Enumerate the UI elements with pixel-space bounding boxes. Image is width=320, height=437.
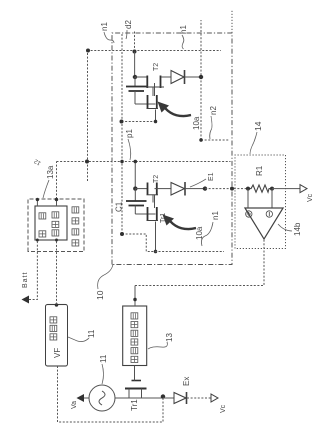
wire op-amp plus input lead: [247, 189, 249, 208]
node dot cell2 on d2 bus: [120, 120, 124, 124]
leader for d2: [126, 30, 127, 39]
transistor Tr4 bar 2: [156, 95, 158, 109]
svg-text:n1: n1: [211, 211, 220, 220]
capacitor C2 plate 2: [129, 90, 145, 92]
wire bus h vertical: [87, 50, 221, 52]
svg-text:11: 11: [99, 354, 108, 363]
source V1 wave symbol: [99, 391, 105, 405]
wire cell1 feed from p1: [134, 162, 136, 189]
node A2: [133, 186, 137, 190]
svg-text:13: 13: [165, 333, 174, 342]
node dot VF box right: [55, 303, 58, 306]
diode E1 triangle: [171, 183, 185, 196]
diode Ex cathode bar: [186, 392, 188, 404]
transistor Tr4 bar 1: [147, 95, 149, 109]
wire capacitor C1 far lead: [134, 206, 136, 215]
block voltage control unit (inner box): [35, 206, 67, 240]
block box 10 (dashed): [112, 33, 232, 265]
op-amp U1 triangle: [245, 208, 283, 239]
wire op-amp minus input lead: [271, 189, 273, 208]
wire source to Tr1: [115, 397, 163, 399]
transistor Tr1 channel bar: [125, 388, 147, 390]
diode E2 cathode bar: [184, 70, 186, 84]
wire 13a box to p1: [56, 162, 58, 200]
node dot n1 jog: [154, 250, 158, 254]
node dot crossing bus: [230, 187, 234, 191]
wire net h1 horizontal: [200, 20, 202, 140]
wire diode to Vc terminal: [187, 397, 211, 399]
leader for 13a: [43, 180, 49, 198]
leader for 13: [148, 342, 167, 349]
svg-text:C1: C1: [115, 201, 124, 212]
node junction d1/h: [86, 49, 90, 53]
terminal arrow Vc (left): [211, 394, 218, 402]
terminal arrow Batt: [22, 296, 30, 304]
wire Tr2 stub: [152, 195, 154, 203]
resistor R1 zigzag: [248, 185, 272, 192]
node dot inner box lower: [55, 239, 58, 242]
wire Tr5 to diode E2: [161, 76, 171, 78]
node n2 corner: [199, 138, 203, 142]
wire stub control box upper: [36, 199, 38, 206]
svg-text:VF: VF: [53, 348, 62, 358]
text row under control box: [72, 240, 79, 246]
wire capacitor C2 far lead: [134, 91, 136, 104]
node cell2 output on h1: [199, 75, 203, 79]
transistor Tr1 gate bar: [132, 380, 142, 382]
transistor Tr3 bar 1: [147, 207, 149, 221]
transistor Tr5 gate lead: [135, 76, 147, 78]
node dot box edge lower: [55, 198, 58, 201]
svg-text:Tr1: Tr1: [130, 399, 139, 411]
wire E2 to h1: [185, 76, 201, 78]
diode Ex triangle: [174, 393, 186, 404]
node A1: [133, 75, 137, 79]
svg-text:13a: 13a: [46, 165, 55, 179]
transistor Tr5 bar 2: [160, 76, 162, 89]
block box 14 (dotted): [235, 155, 286, 249]
pointer arrow 10a cell2: [165, 108, 191, 116]
wire bus extension: [231, 10, 233, 33]
terminal arrow Va: [77, 394, 85, 402]
leader for p1: [128, 139, 131, 160]
transistor Tr3 bar 2: [156, 207, 158, 221]
svg-text:Ex: Ex: [182, 377, 191, 386]
svg-text:d2: d2: [124, 20, 133, 29]
block threshold adjust unit 13: [123, 306, 147, 366]
svg-text:Va: Va: [71, 401, 78, 409]
svg-text:Vc: Vc: [307, 193, 314, 202]
leader for 14b: [278, 224, 292, 231]
wire Tr1 gate lead: [134, 366, 136, 381]
node R1 top: [246, 187, 250, 191]
wire net n1 jog: [122, 234, 224, 252]
wire Tr4 out lead: [155, 110, 157, 122]
transistor Tr2 gate lead: [135, 188, 147, 190]
wire junction to diode Ex: [163, 397, 174, 399]
transistor Tr2 bar 2: [156, 183, 158, 195]
wire net d2 horizontal bus: [121, 33, 123, 234]
text glyphs VF box: [50, 334, 57, 340]
wire Tr5 stub: [152, 87, 154, 96]
transistor Tr5 bar 1: [146, 76, 148, 89]
wire Tr3 out lead: [155, 222, 157, 252]
leader for n1: [201, 222, 213, 246]
svg-text:14b: 14b: [293, 222, 302, 236]
node dot cell2 corner: [154, 120, 158, 124]
text glyphs threshold box: [131, 356, 138, 362]
block box 13a (dashed): [28, 199, 84, 252]
svg-text:n1: n1: [100, 22, 109, 31]
svg-text:p1: p1: [125, 129, 134, 138]
wire R1 to Vc terminal: [272, 188, 300, 190]
diode E2 triangle: [171, 71, 184, 84]
wire op-amp output routing: [135, 239, 264, 286]
svg-text:h1: h1: [179, 25, 188, 34]
wire Batt input: [29, 240, 37, 300]
wire threshold box output: [134, 286, 136, 307]
wire bus right stub: [134, 30, 136, 52]
wire cell2 feed from bus: [134, 52, 136, 78]
svg-text:Vc: Vc: [220, 404, 227, 413]
source V1 (circle): [89, 385, 115, 411]
text row2 in control box: [52, 230, 59, 236]
capacitor C1 plate 1: [126, 200, 147, 202]
wire capacitor C2 lead: [134, 77, 136, 87]
wire C1 lead down: [135, 213, 155, 215]
svg-text:T2: T2: [153, 63, 160, 71]
op-amp plus input circle: [246, 211, 252, 217]
wire VF box to 13a box: [56, 240, 58, 305]
wire E1 to output node: [185, 188, 205, 190]
leader for n1 top: [104, 32, 114, 43]
svg-text:E1: E1: [208, 172, 215, 181]
block VF detection unit 11: [46, 305, 68, 367]
transistor Tr4 connector: [147, 108, 159, 110]
diode E1 cathode bar: [184, 182, 186, 196]
op-amp minus input circle: [266, 211, 272, 217]
pointer arrow 10a cell1: [170, 221, 196, 229]
wire capacitor C1 lead: [134, 189, 136, 201]
node junction h bus: [133, 50, 137, 54]
node junction bottom wire: [161, 394, 165, 398]
wire Tr2 to diode E1: [155, 188, 172, 190]
svg-text:10: 10: [95, 290, 105, 300]
transistor Tr2 bar 1: [147, 183, 149, 195]
svg-text:T2: T2: [153, 175, 160, 183]
node cell1 output: [203, 186, 207, 190]
wire link Tr2-Tr3: [154, 195, 156, 208]
wire cell2 to d2 bus: [122, 121, 156, 123]
svg-text:Batt: Batt: [22, 272, 29, 288]
wire stub control box lower: [56, 199, 58, 206]
node dot threshold output: [133, 298, 137, 302]
leader for E1: [190, 179, 206, 187]
capacitor C2 plate 1: [126, 86, 147, 88]
svg-text:14: 14: [253, 121, 263, 131]
node R1 bottom: [270, 187, 274, 191]
text row1 in control box: [39, 231, 46, 237]
wire Tr1 source stub: [141, 389, 143, 399]
wire bus d1 horizontal: [87, 51, 89, 182]
node dot inner box upper: [36, 239, 39, 242]
leader for 11: [68, 337, 89, 342]
wire VF box left loop: [58, 366, 164, 422]
transistor Tr2 connector: [147, 194, 159, 196]
svg-text:11: 11: [87, 329, 96, 338]
node dot n1 on d2 bus: [120, 232, 124, 236]
svg-text:10a: 10a: [192, 116, 201, 130]
leader for h1: [182, 35, 184, 49]
node dot box edge upper: [36, 198, 39, 201]
wire C2 lead down: [135, 103, 156, 105]
terminal arrow Vc (right): [300, 185, 307, 193]
leader for source 11: [102, 364, 104, 384]
leader for n2: [210, 116, 212, 139]
svg-text:R1: R1: [255, 165, 264, 176]
wire Tr1 drain stub: [128, 389, 130, 399]
capacitor C1 plate 2: [129, 205, 145, 207]
transistor Tr5 connector: [146, 86, 164, 88]
svg-text:n2: n2: [209, 106, 218, 115]
leader for 14: [250, 132, 257, 154]
node dot p1 feed: [134, 160, 138, 164]
wire net p1 vertical: [57, 161, 231, 163]
leader for 10: [98, 264, 113, 289]
wire Va to source: [84, 397, 89, 399]
wire net n2 vertical: [201, 139, 229, 141]
wire link Tr4-Tr5: [154, 83, 156, 96]
node junction p1/d1: [85, 160, 89, 164]
transistor Tr3 connector: [147, 220, 159, 222]
node junction p1/d2: [120, 160, 124, 164]
wire cell1 output to R1: [205, 188, 248, 190]
